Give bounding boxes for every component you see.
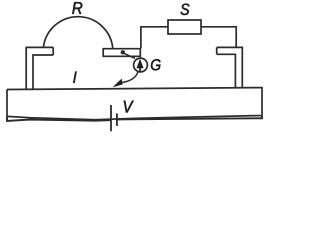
wire (S box left lead down to middle bar) (141, 27, 168, 48)
battery V long plate (110, 105, 112, 131)
label l (balancing length) (73, 72, 76, 83)
resistor R (arc coil) (43, 17, 112, 49)
label G (151, 59, 161, 70)
slide wire box (bridge body) (7, 88, 262, 120)
label V (124, 101, 134, 113)
jockey contact arrowhead (113, 79, 123, 88)
battery V short plate (116, 113, 118, 126)
terminal bracket left (gap 1 strip) (26, 47, 53, 88)
terminal bracket right (gap 2 strip) (217, 47, 243, 87)
label R (72, 2, 82, 14)
galvanometer G circle (134, 58, 148, 72)
wire (S box right lead down to right bracket) (201, 27, 236, 47)
label S (181, 4, 190, 15)
wire (battery loop right segment) (118, 116, 262, 120)
terminal bar middle (gap strip) (103, 49, 140, 57)
wire (dot to galvanometer) (123, 53, 135, 58)
wire (jockey lead curve) (123, 72, 139, 83)
galvanometer G needle arrow (137, 59, 144, 72)
resistor box S (168, 20, 201, 34)
wire (battery loop left segment) (7, 116, 110, 121)
node (junction dot on middle bar) (121, 50, 125, 54)
